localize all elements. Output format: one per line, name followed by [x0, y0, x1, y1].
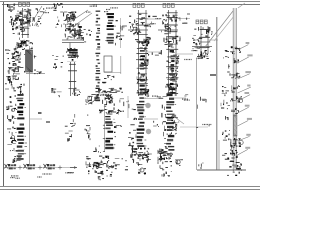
Q row 1r — [108, 159, 123, 170]
top right corner tick — [238, 3, 245, 8]
frame top inner line — [2, 4, 260, 6]
H knot 8 — [230, 150, 238, 158]
sparse right of bar B — [34, 55, 37, 58]
detail E tail — [140, 44, 150, 56]
detail E2 knot b — [137, 72, 148, 83]
detail C right marks — [78, 26, 92, 42]
detail G knot lower — [196, 50, 211, 59]
wall B knot b — [10, 64, 20, 75]
callout L0 text — [182, 95, 189, 101]
Q row 2r — [106, 170, 112, 176]
vertical line J — [104, 104, 106, 152]
text D5 — [100, 94, 109, 96]
callout K2 — [152, 96, 167, 99]
detail G wall pair — [199, 26, 211, 54]
ladder K — [134, 94, 146, 150]
detail E wall pair — [136, 10, 149, 96]
grey dot K upper — [145, 103, 150, 108]
detail G sill line — [192, 46, 212, 48]
R side mark right — [146, 154, 152, 160]
circle mark H b — [239, 140, 243, 144]
sheet background — [0, 0, 260, 194]
detail C knot top heavy — [64, 12, 77, 26]
H knot 9 — [229, 161, 242, 171]
H knot 2 — [234, 58, 239, 63]
vertical line J4 — [127, 96, 129, 118]
Q row 1 — [86, 156, 109, 169]
H knot 1 — [230, 46, 241, 54]
detail F2 knot b — [167, 70, 178, 82]
detail F knot left — [161, 26, 171, 34]
callout F3 — [184, 50, 197, 60]
horizontal leader col E y52 — [146, 51, 161, 53]
band subtext 2 — [37, 173, 51, 177]
right shaft lower double line — [218, 140, 220, 170]
detail F2 knot a — [166, 56, 179, 69]
circle mark S — [176, 160, 180, 164]
H knot 6 — [231, 108, 239, 114]
detail F wall pair — [166, 10, 179, 96]
detail A title glyph row — [19, 3, 30, 7]
frame bottom outer line — [0, 189, 260, 191]
small mark on leader y115 — [38, 112, 42, 114]
detail G knot left — [193, 40, 200, 49]
hatched wall bar B — [26, 50, 33, 72]
Q row 2 — [88, 170, 104, 175]
detail E title glyph row — [133, 4, 144, 8]
tick on shaft line y75 — [210, 74, 216, 76]
detail A knot upper — [15, 9, 31, 27]
H knot 7 — [229, 138, 241, 149]
leader K y119 — [144, 118, 158, 120]
marks below base line — [227, 172, 240, 176]
detail F2 knot c — [166, 84, 178, 94]
wall B left dashes — [8, 48, 25, 91]
rect outline D — [104, 56, 112, 72]
detail A right marks — [33, 8, 42, 27]
dim corner D vertical — [120, 56, 122, 74]
horizontal leader col F y98 — [174, 97, 186, 99]
ladder I — [14, 94, 27, 150]
S cluster — [158, 146, 173, 170]
marks right of F — [192, 35, 196, 41]
circle mark I b — [12, 136, 15, 139]
R side mark left — [126, 154, 131, 161]
J right marks — [114, 126, 122, 138]
detail G side marks — [194, 27, 213, 51]
circle mark R — [140, 168, 144, 172]
L knot b — [164, 124, 177, 135]
P left knot — [13, 156, 16, 162]
diagonal leader L — [176, 118, 184, 124]
H knot 4 — [231, 85, 240, 92]
detail A knot lower — [16, 38, 30, 50]
Q right dots — [125, 166, 128, 169]
detail E right marks — [150, 16, 161, 24]
bottom blob C3b — [73, 88, 81, 96]
detail F sill line — [158, 29, 178, 31]
horizontal leader col F y54 — [177, 53, 193, 55]
D right marks — [116, 20, 127, 45]
R cluster — [132, 147, 149, 166]
H left marks d — [221, 100, 231, 109]
S tail — [162, 171, 172, 177]
J4 light marks — [114, 99, 129, 113]
marks T1 — [199, 163, 204, 169]
right shaft double wall line A — [232, 8, 234, 170]
detail A leader diagonal 1 — [32, 6, 42, 22]
detail E leader right — [146, 18, 160, 20]
dim corner D horizontal — [104, 72, 121, 74]
H knot 5 — [231, 96, 242, 103]
leader L3 — [180, 126, 208, 128]
detail A leader diagonal 2 — [34, 10, 46, 26]
long vertical line col G — [196, 58, 198, 170]
Q tail — [98, 176, 104, 180]
detail A knot mid — [12, 26, 25, 35]
S right marks — [175, 160, 183, 166]
cluster J2b — [103, 94, 114, 106]
detail F left dashes — [162, 14, 168, 26]
detail C2 extra — [66, 48, 79, 61]
K left dashes — [128, 104, 137, 147]
ladder J3 — [103, 116, 116, 152]
bottom-left band baseline — [4, 167, 77, 169]
Q ladder gap marks — [93, 146, 101, 153]
wall pair C lower — [68, 62, 77, 96]
ticks D below rect — [104, 75, 114, 79]
detail E knot left — [130, 26, 141, 35]
wall B knot a — [13, 50, 21, 60]
dense band D4 — [98, 88, 123, 94]
detail C leader diagonal 2 — [74, 13, 92, 26]
H left marks a — [224, 50, 229, 59]
bottom-left band knots — [5, 164, 78, 170]
H left marks c — [222, 86, 229, 96]
L left dashes — [162, 105, 166, 139]
K right marks — [153, 121, 159, 127]
band subtext 1 — [10, 175, 19, 179]
right shaft double wall line B — [235, 8, 237, 170]
left border ticks — [5, 50, 10, 110]
long vertical line col D — [120, 18, 122, 48]
arc detail J — [88, 94, 97, 104]
top knot C0 — [53, 3, 63, 12]
wall B knot c — [8, 76, 23, 94]
band top marks — [12, 157, 20, 163]
frame top outer line — [0, 1, 260, 3]
detail C knot mid — [65, 24, 82, 39]
horizontal leader line left y119 — [30, 118, 42, 120]
horizontal leader col E y99 — [144, 98, 160, 100]
circle mark I a — [12, 109, 15, 112]
detail A wall pair — [20, 8, 30, 38]
detail F right marks — [180, 14, 190, 23]
right shaft wall fill — [233, 8, 236, 170]
detail E upper marks — [139, 14, 153, 27]
callout marks A3 — [40, 8, 52, 14]
detail F upper marks — [165, 14, 180, 26]
ledge line under bar B — [26, 73, 45, 75]
detail C2 dense stack — [67, 49, 78, 62]
detail C double sill lines — [62, 40, 84, 43]
H left marks f — [222, 130, 230, 140]
frame left line — [3, 2, 5, 187]
detail G leader right — [208, 39, 218, 41]
detail G title glyph row — [196, 20, 207, 24]
detail E2 knot a — [139, 56, 148, 69]
detail F knot lower — [164, 36, 180, 45]
long vertical line right shaft left edge — [216, 17, 218, 170]
long vertical line left column — [29, 46, 31, 166]
diagonal leader top right 2 — [214, 13, 237, 41]
detail C diag end marks — [86, 4, 97, 13]
detail A right lower marks — [30, 42, 33, 49]
sparse D3 area — [102, 80, 112, 83]
sparse strip J1 — [65, 114, 75, 142]
H left marks e — [226, 116, 229, 120]
ladder L — [164, 94, 177, 151]
L knot a — [167, 115, 179, 123]
detail C stub vertical — [69, 43, 71, 53]
detail A title knot — [8, 4, 16, 12]
band subtext 3 — [65, 172, 73, 173]
marks above ledge B — [34, 70, 42, 75]
strip D left edge — [95, 11, 100, 102]
marks M1 — [197, 97, 206, 109]
detail C leader diagonal 1 — [70, 10, 88, 22]
detail E inner stack — [140, 50, 148, 94]
detail E sill line — [128, 29, 148, 31]
detail F title glyph row — [163, 4, 174, 8]
H knot 3 — [230, 73, 240, 79]
detail E left dashes — [129, 16, 138, 29]
grey dot K lower — [146, 129, 151, 134]
detail F inner stack — [168, 50, 178, 93]
leader whiskers H right — [238, 42, 253, 155]
circle mark H a — [238, 98, 242, 102]
horizontal base line bottom right y170 — [197, 169, 246, 171]
frame bottom inner line — [0, 186, 260, 188]
detail F tail — [168, 45, 176, 56]
R tail — [138, 169, 146, 174]
text row D0 — [104, 7, 118, 12]
mid cluster right B lower — [51, 88, 62, 97]
I left dashes — [7, 96, 17, 151]
callout L3 text — [196, 124, 211, 128]
J left marks — [85, 114, 90, 140]
hatched wall segment H — [234, 115, 237, 136]
ladder D1 — [105, 13, 116, 44]
curve cluster J2a — [86, 94, 99, 105]
detail A left dashes — [10, 16, 17, 26]
detail E knot lower — [135, 37, 151, 45]
dense band J — [99, 110, 119, 115]
detail E2 knot c — [137, 88, 149, 97]
ladder P tail — [14, 150, 26, 161]
detail F leader right — [176, 18, 190, 20]
small mark below leader y121 — [46, 121, 50, 123]
top tail C0b — [56, 16, 66, 28]
diagonal leader top right 1 — [205, 11, 233, 47]
H left marks g — [222, 154, 229, 160]
H left marks b — [227, 64, 230, 72]
mid cluster right B — [52, 55, 64, 69]
callout E3 — [152, 50, 161, 55]
